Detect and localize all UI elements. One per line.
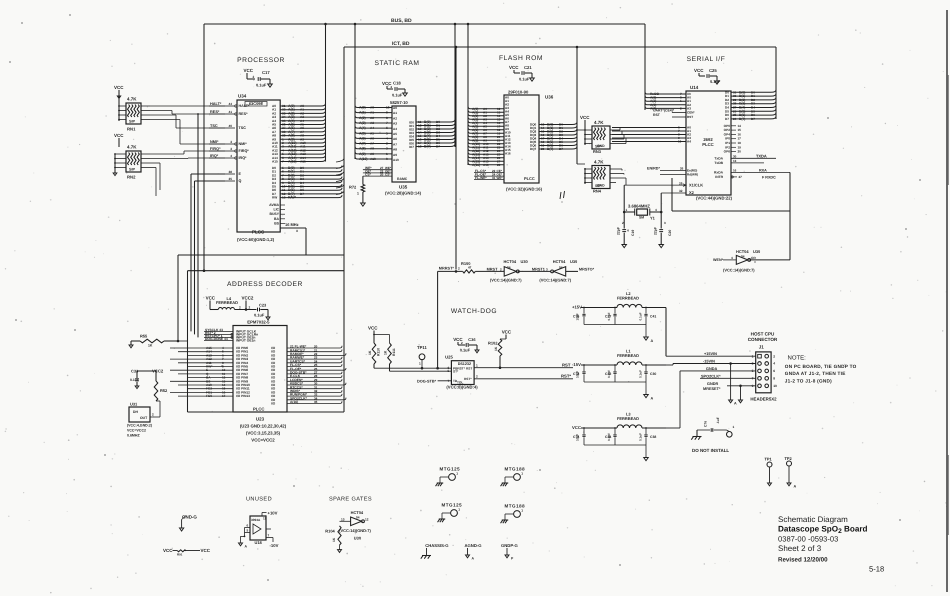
svg-text:5: 5 (247, 529, 249, 533)
svg-text:38: 38 (228, 170, 232, 174)
svg-text:A8: A8 (393, 148, 397, 152)
svg-text:20: 20 (541, 147, 545, 151)
svg-text:GNDA: GNDA (706, 367, 718, 371)
svg-text:RXA: RXA (759, 168, 767, 172)
svg-text:(VCC:14)(GND:7): (VCC:14)(GND:7) (723, 268, 755, 273)
wire RN4 feed (577, 163, 585, 165)
svg-text:1K: 1K (494, 346, 498, 351)
ic U35 static ram body (392, 106, 416, 182)
svg-text:A7: A7 (393, 142, 397, 146)
svg-text:GNDP-G: GNDP-G (501, 543, 519, 548)
svg-text:26: 26 (680, 167, 684, 171)
svg-text:13: 13 (282, 196, 286, 200)
svg-text:R91: R91 (177, 553, 183, 557)
svg-text:X2: X2 (689, 190, 695, 195)
svg-text:A(16): A(16) (290, 400, 298, 404)
wire serial bottom path (671, 178, 673, 211)
svg-text:24: 24 (733, 117, 737, 121)
inductor L4 FERRBEAD (218, 307, 234, 309)
svg-text:VCC: VCC (694, 68, 704, 73)
wire R102 down (499, 356, 501, 368)
inverter U30 mrst a (504, 267, 516, 276)
svg-text:8: 8 (773, 376, 775, 380)
svg-text:35: 35 (228, 177, 232, 181)
terminal circle C76 (727, 430, 730, 432)
svg-text:0387-00 -0593-03: 0387-00 -0593-03 (778, 535, 838, 544)
svg-text:10uF: 10uF (576, 313, 580, 320)
svg-text:RST: RST (466, 366, 472, 370)
svg-text:0.1uF: 0.1uF (639, 433, 643, 441)
svg-text:2: 2 (458, 267, 460, 271)
svg-text:A(6): A(6) (359, 136, 366, 140)
svg-text:HCT04: HCT04 (351, 510, 364, 515)
svg-text:U30: U30 (570, 259, 578, 264)
wire C21 gnd (525, 72, 532, 74)
svg-text:(VCC:8)(GND:4): (VCC:8)(GND:4) (446, 385, 478, 390)
svg-text:RES*: RES* (239, 112, 249, 116)
ground C17 (268, 84, 273, 87)
svg-text:.1uF: .1uF (716, 417, 720, 424)
svg-text:C30: C30 (650, 372, 656, 376)
node junction decoder top (203, 269, 206, 272)
pin RST* out (474, 378, 573, 380)
svg-text:HCT04: HCT04 (504, 259, 517, 264)
svg-text:Rd(WR): Rd(WR) (687, 173, 698, 177)
svg-text:22pF: 22pF (654, 227, 658, 235)
svg-text:0.1uF: 0.1uF (460, 348, 471, 353)
svg-text:-10V: -10V (270, 543, 279, 548)
wire U18 gnd (241, 535, 245, 537)
svg-text:2: 2 (386, 147, 388, 151)
resistor network RN3 (592, 126, 610, 149)
wire XTAL 16MHz (280, 227, 306, 229)
wire BUS,BD top rail (204, 23, 645, 25)
svg-text:1: 1 (386, 152, 388, 156)
svg-text:RN2: RN2 (127, 175, 136, 180)
svg-text:HALT*: HALT* (239, 104, 251, 108)
svg-text:AGND-G: AGND-G (465, 543, 483, 548)
svg-text:(VCC:14)(GND:7): (VCC:14)(GND:7) (339, 528, 371, 533)
svg-text:4.7K: 4.7K (594, 160, 604, 165)
ic U23 EPM7032 body (233, 326, 287, 413)
svg-text:A16: A16 (483, 163, 489, 167)
svg-text:C18: C18 (393, 81, 401, 86)
svg-text:A3: A3 (370, 121, 374, 125)
svg-text:7: 7 (282, 160, 284, 164)
svg-text:FIRQ*: FIRQ* (239, 149, 250, 153)
svg-text:1K: 1K (148, 344, 153, 348)
svg-text:R102: R102 (488, 341, 498, 346)
svg-text:X: X (296, 229, 299, 233)
pin RxDA (731, 171, 790, 173)
svg-text:PROCESSOR: PROCESSOR (237, 57, 285, 64)
wire X1 drop (623, 185, 625, 212)
svg-text:FC0: FC0 (206, 394, 212, 398)
node junction bus-processor (324, 23, 327, 26)
svg-text:C36: C36 (468, 337, 476, 342)
svg-text:EN/RD*: EN/RD* (647, 167, 660, 171)
wire C20 gnd (660, 233, 662, 245)
svg-text:3: 3 (664, 221, 666, 225)
svg-text:1: 1 (521, 472, 523, 476)
svg-text:DOG-DONE 44: DOG-DONE 44 (205, 337, 228, 341)
svg-text:RN1: RN1 (127, 127, 136, 132)
svg-text:Revised 12/20/00: Revised 12/20/00 (778, 557, 828, 564)
wire VCC to J1 (666, 427, 680, 429)
svg-text:A(8): A(8) (359, 147, 366, 151)
svg-text:2: 2 (152, 413, 154, 417)
ground U18 (239, 543, 243, 546)
svg-text:SERIAL I/F: SERIAL I/F (687, 56, 726, 63)
wire C33 tie (136, 371, 138, 374)
wire C18 gnd (398, 88, 405, 90)
svg-text:A(4): A(4) (359, 126, 366, 130)
svg-text:5: 5 (386, 131, 388, 135)
wire X2 drop (660, 193, 662, 212)
svg-text:3.6864MHZ: 3.6864MHZ (628, 204, 650, 209)
wire C23 gnd (260, 309, 268, 311)
svg-text:27: 27 (739, 175, 743, 179)
svg-text:IO7: IO7 (409, 145, 414, 149)
section box processor left edge (203, 24, 205, 271)
svg-text:2: 2 (461, 341, 463, 345)
svg-text:U36: U36 (545, 95, 554, 100)
svg-text:X1/CLK: X1/CLK (689, 182, 703, 187)
resistor R52 (154, 381, 158, 401)
svg-text:1: 1 (521, 509, 523, 513)
svg-text:STATIC RAM: STATIC RAM (374, 60, 419, 67)
svg-text:2: 2 (773, 354, 775, 358)
resistor R104 (338, 526, 341, 545)
wire row4 to J1 (700, 377, 756, 379)
wires RN1 pins (118, 99, 120, 121)
svg-text:FERRBEAD: FERRBEAD (617, 353, 639, 358)
svg-text:0.1uF: 0.1uF (254, 313, 265, 318)
svg-text:(VCC:4,GND:2): (VCC:4,GND:2) (127, 424, 152, 428)
wire drop to R55 (177, 255, 179, 341)
section box address decoder (188, 270, 345, 272)
svg-text:MRRST*: MRRST* (439, 267, 455, 271)
svg-text:R111: R111 (392, 348, 396, 356)
bus U34 address pins A0-A15 (280, 105, 321, 107)
svg-text:PLCC: PLCC (253, 407, 264, 412)
svg-text:R/W*: R/W* (288, 196, 297, 200)
svg-text:35: 35 (314, 400, 318, 404)
svg-text:16 MHz: 16 MHz (285, 222, 299, 227)
svg-text:D7: D7 (751, 117, 755, 121)
svg-text:A15: A15 (300, 160, 306, 164)
svg-text:2: 2 (476, 375, 478, 379)
wire C17 to gnd (261, 78, 270, 80)
svg-text:A: A (245, 545, 248, 549)
crystal Y1 (624, 211, 635, 213)
svg-text:VCC: VCC (502, 330, 512, 335)
svg-text:(VCC:3,15,23,35): (VCC:3,15,23,35) (246, 431, 281, 436)
pins U36 control CE/OE/WE (474, 172, 504, 174)
svg-text:A8: A8 (370, 147, 374, 151)
artifact right edge line (946, 10, 948, 592)
pin INTR (731, 176, 737, 178)
paper speckle texture (605, 16, 608, 19)
svg-text:P: P (511, 557, 514, 561)
wire RN3 feed (577, 129, 585, 131)
svg-text:0.1uF: 0.1uF (639, 312, 643, 320)
svg-text:0.6MHZ: 0.6MHZ (127, 434, 140, 438)
svg-text:A0: A0 (370, 106, 374, 110)
wire ICT drop to serial right bus (775, 47, 777, 119)
svg-text:4: 4 (731, 256, 733, 260)
svg-text:NOTE:: NOTE: (788, 355, 807, 362)
svg-text:U23: U23 (256, 417, 265, 422)
svg-text:U30: U30 (521, 259, 529, 264)
wire C36 gnd (469, 344, 477, 346)
wires RN2 spare pins down (150, 162, 160, 164)
svg-text:SPARE GATES: SPARE GATES (329, 497, 372, 503)
wire BUS rail drop to serial (644, 24, 646, 110)
svg-text:D(7): D(7) (547, 147, 553, 151)
node junction ict-flash-data (576, 46, 579, 49)
ground C23 (266, 317, 270, 320)
svg-text:DH: DH (133, 410, 138, 414)
svg-text:I/O PIN13: I/O PIN13 (236, 394, 250, 398)
svg-text:0.1uF: 0.1uF (256, 83, 267, 88)
svg-text:(U23 GND:10,22,30,42): (U23 GND:10,22,30,42) (240, 424, 287, 429)
svg-text:FERRBEAD: FERRBEAD (617, 416, 639, 421)
svg-text:D(7): D(7) (424, 145, 431, 149)
wire C20 drop (660, 212, 662, 229)
ground TP2 (787, 483, 791, 486)
svg-text:SM: SM (639, 216, 644, 220)
svg-text:A6: A6 (393, 137, 397, 141)
svg-text:DQ7: DQ7 (530, 147, 537, 151)
bus U34 data pins D0-D7 (280, 167, 338, 169)
svg-text:TxDB: TxDB (714, 161, 723, 165)
svg-text:1: 1 (476, 364, 478, 368)
capacitor C17 (257, 77, 259, 81)
svg-text:WATCH-DOG: WATCH-DOG (451, 308, 497, 315)
svg-text:22pF: 22pF (617, 227, 621, 235)
svg-text:A(15): A(15) (288, 160, 297, 164)
ground chassis C76 (693, 436, 702, 438)
ground R55 (129, 345, 133, 348)
wires RN to processor inputs (150, 105, 168, 107)
svg-text:1K: 1K (384, 350, 388, 355)
wire inverter out (749, 259, 790, 261)
svg-text:I/O: I/O (271, 402, 276, 406)
svg-text:1: 1 (357, 192, 359, 196)
wire RST to decoder (197, 114, 199, 337)
section box processor bottom (178, 254, 344, 256)
svg-text:C20: C20 (668, 230, 672, 236)
svg-text:UNUSED: UNUSED (246, 497, 272, 503)
svg-text:0.1uF: 0.1uF (607, 370, 611, 378)
svg-text:A(7): A(7) (359, 142, 366, 146)
svg-text:C38: C38 (650, 435, 656, 439)
svg-text:1: 1 (752, 354, 754, 358)
svg-text:44: 44 (228, 102, 232, 106)
svg-text:U31: U31 (130, 402, 138, 407)
svg-text:F RXDC: F RXDC (762, 175, 776, 179)
svg-text:IRQ*: IRQ* (210, 154, 219, 158)
svg-text:SPO2CLK*: SPO2CLK* (701, 374, 721, 378)
bus U36 address rows (471, 108, 505, 110)
svg-text:58257-10: 58257-10 (390, 100, 408, 105)
bus U14 left top rows (647, 93, 686, 95)
svg-text:Sheet 2 of 3: Sheet 2 of 3 (778, 544, 822, 553)
svg-text:2: 2 (391, 85, 393, 89)
svg-text:RST: RST (653, 113, 661, 117)
svg-text:17: 17 (222, 394, 226, 398)
ic U31 supervisor (129, 407, 150, 422)
svg-text:CEN*: CEN* (687, 111, 695, 115)
svg-text:10: 10 (386, 106, 390, 110)
wire inverter2 in (566, 270, 578, 272)
svg-text:NMI*: NMI* (210, 140, 219, 144)
svg-text:A(2): A(2) (359, 116, 366, 120)
ground C18 (403, 93, 408, 96)
svg-text:BUSY: BUSY (269, 212, 279, 216)
svg-text:HCT04: HCT04 (553, 259, 566, 264)
svg-text:1K: 1K (368, 350, 372, 355)
wire Q to decoder (195, 180, 226, 182)
svg-text:VCC: VCC (201, 548, 211, 553)
svg-text:C17: C17 (262, 70, 270, 75)
wire rxd loop vertical (789, 172, 791, 260)
wire mrrst row (438, 270, 463, 272)
pin RST out (474, 367, 573, 369)
svg-text:A: A (794, 485, 797, 489)
pin TxDB (731, 162, 764, 164)
wire R111 to U25 (389, 364, 391, 371)
svg-text:CS*: CS* (365, 173, 372, 177)
svg-text:63C09E: 63C09E (249, 101, 264, 106)
wires RN2 pins and ground (114, 154, 116, 173)
wire between inverters (518, 270, 551, 272)
wire ICT drop flash data bus (576, 47, 578, 164)
svg-text:IRQ*: IRQ* (239, 156, 248, 160)
svg-text:C21: C21 (524, 65, 532, 70)
svg-text:(VCC:32)(GND:16): (VCC:32)(GND:16) (506, 187, 543, 192)
svg-text:3: 3 (386, 142, 388, 146)
svg-text:6: 6 (773, 369, 775, 373)
svg-text:5-18: 5-18 (869, 565, 884, 574)
svg-text:RST: RST (687, 115, 693, 119)
svg-text:A(16): A(16) (472, 163, 480, 167)
ground R104 (338, 550, 342, 553)
node junction ict-mrrst (455, 46, 458, 49)
svg-text:PLCC: PLCC (524, 176, 535, 181)
svg-text:A: A (651, 397, 654, 401)
wire E to decoder (191, 173, 225, 175)
svg-text:VCC=VCC2: VCC=VCC2 (251, 438, 275, 443)
svg-text:0.1uF: 0.1uF (519, 77, 530, 82)
svg-text:R110: R110 (377, 348, 381, 356)
bus U14 address select rows (612, 127, 686, 129)
wire spare input (340, 520, 351, 522)
svg-text:VCC: VCC (368, 326, 378, 331)
svg-text:A(3): A(3) (359, 121, 366, 125)
wire row5 to J1 (727, 385, 756, 387)
svg-text:VCC: VCC (580, 115, 590, 120)
node junction bus-flash (467, 23, 470, 26)
svg-text:C19: C19 (631, 230, 635, 236)
svg-text:2: 2 (500, 267, 502, 271)
wires RN3/RN4 jogs (616, 129, 620, 131)
pins U23 right outputs (287, 347, 340, 349)
svg-text:10: 10 (678, 140, 682, 144)
wire R110 to U25 (373, 364, 375, 368)
svg-text:TSC: TSC (239, 126, 247, 130)
capacitor C76 (710, 428, 712, 432)
ground C25 (715, 81, 720, 84)
svg-text:UART*(CE4)*: UART*(CE4)* (653, 109, 675, 113)
wire R72 gnd (362, 192, 364, 203)
wire r111 top (374, 334, 390, 336)
wire C25 gnd (710, 75, 717, 77)
resistor R102 (498, 339, 502, 356)
svg-text:FERRBEAD: FERRBEAD (216, 300, 238, 305)
svg-text:C76: C76 (704, 421, 708, 427)
svg-text:RST*: RST* (464, 377, 472, 381)
svg-text:4: 4 (627, 229, 629, 233)
svg-text:LIC: LIC (273, 208, 279, 212)
svg-text:TxDA: TxDA (714, 156, 723, 160)
svg-text:(VCC:28)(GND:14): (VCC:28)(GND:14) (385, 191, 422, 196)
svg-text:A15: A15 (272, 160, 278, 164)
resistor R100 (463, 270, 476, 273)
svg-text:VCC2: VCC2 (242, 296, 254, 301)
svg-text:RES*: RES* (210, 110, 220, 114)
svg-text:C23: C23 (259, 303, 267, 308)
svg-text:+15VIN: +15VIN (704, 352, 717, 356)
svg-text:TP2: TP2 (785, 456, 793, 461)
svg-text:RxDA: RxDA (714, 170, 724, 174)
pin U18 out (266, 528, 271, 530)
svg-text:11: 11 (263, 517, 267, 521)
svg-text:D7: D7 (300, 192, 304, 196)
capacitor C18 (394, 87, 396, 91)
svg-text:(VCC:44)(GND:22): (VCC:44)(GND:22) (696, 196, 733, 201)
resistor network RN1 (126, 103, 141, 124)
pins U18 inputs (245, 527, 251, 529)
svg-text:-15V: -15V (572, 362, 581, 367)
svg-text:0.1uF: 0.1uF (607, 312, 611, 320)
svg-text:30: 30 (733, 154, 737, 158)
capacitor C21 (521, 71, 523, 75)
ground C19 (622, 245, 627, 248)
svg-text:A(0): A(0) (359, 106, 366, 110)
pins U34 left control pins (225, 105, 235, 107)
svg-text:RN3: RN3 (593, 149, 602, 154)
svg-text:MRST: MRST (487, 267, 499, 271)
svg-text:AVMA: AVMA (269, 203, 279, 207)
svg-text:VCC: VCC (509, 65, 519, 70)
svg-text:28: 28 (497, 163, 501, 167)
svg-text:3: 3 (546, 267, 548, 271)
svg-text:6: 6 (247, 524, 249, 528)
bus U35 data rows (416, 121, 450, 123)
svg-text:2: 2 (253, 75, 255, 79)
svg-text:Datascope SpO2 Board: Datascope SpO2 Board (778, 525, 868, 536)
svg-text:RST*: RST* (561, 374, 571, 379)
svg-text:OP6: OP6 (724, 150, 731, 154)
svg-text:A1: A1 (393, 111, 397, 115)
svg-text:(VCC:14)(GND:7): (VCC:14)(GND:7) (490, 278, 522, 283)
svg-text:CS*: CS* (385, 173, 391, 177)
resistor R111 (388, 343, 392, 364)
svg-text:A4: A4 (370, 126, 374, 130)
svg-text:16: 16 (733, 168, 737, 172)
